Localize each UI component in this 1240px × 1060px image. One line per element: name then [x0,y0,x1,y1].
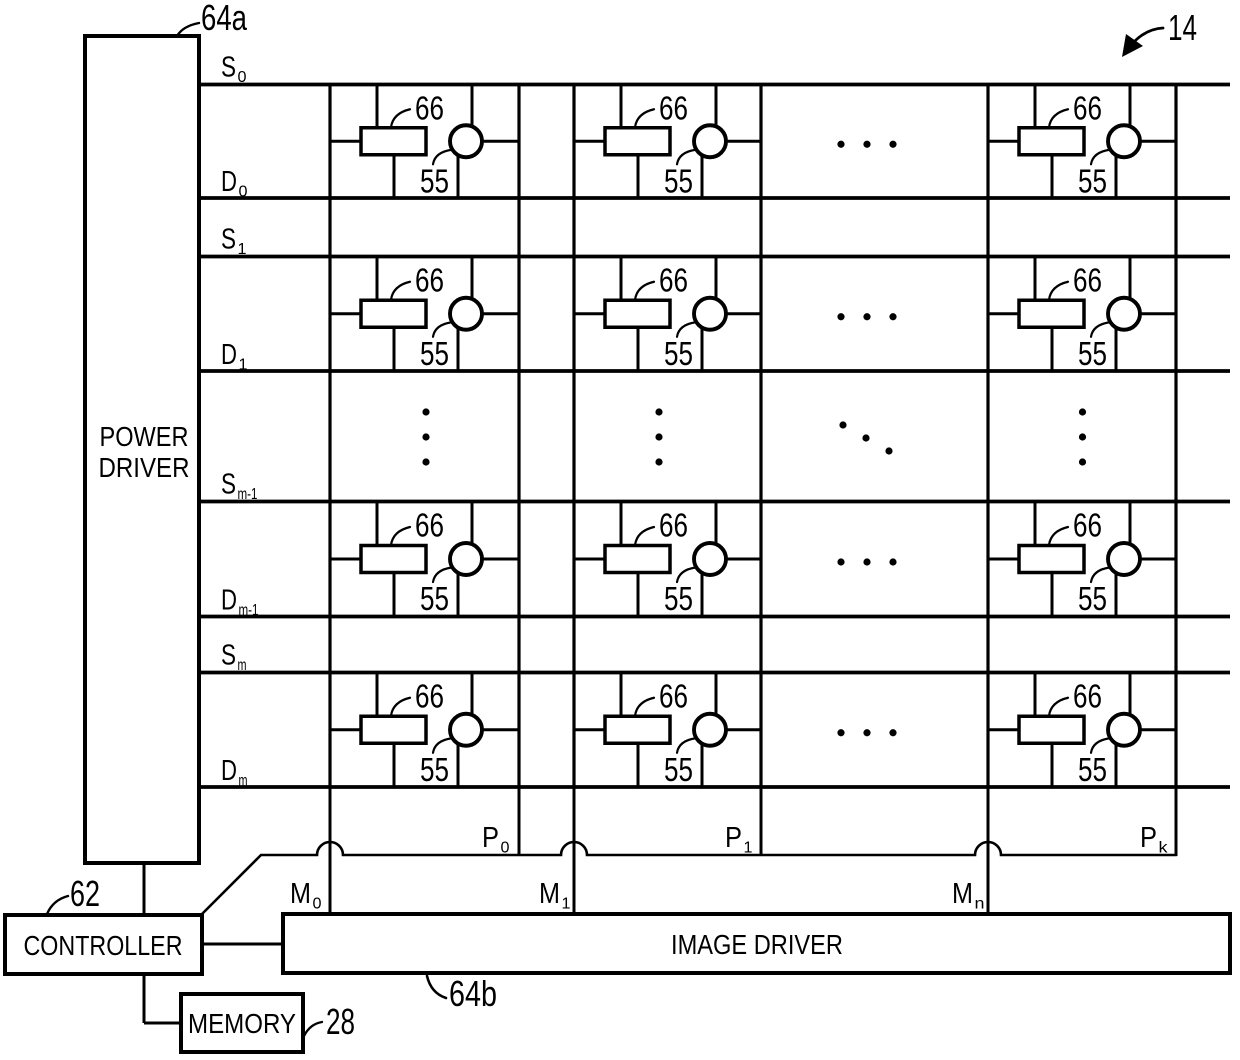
svg-text:POWER: POWER [100,421,189,452]
svg-text:66: 66 [659,678,688,715]
svg-text:0: 0 [501,840,510,857]
svg-text:1: 1 [562,896,571,913]
svg-text:0: 0 [239,184,248,201]
svg-text:m-1: m-1 [238,486,258,503]
svg-text:M: M [290,878,311,910]
svg-text:66: 66 [415,507,444,544]
svg-text:66: 66 [659,262,688,299]
svg-text:1: 1 [238,241,247,258]
svg-text:55: 55 [664,335,693,372]
svg-text:62: 62 [70,873,100,914]
svg-text:S: S [221,52,236,84]
svg-text:55: 55 [664,580,693,617]
svg-text:D: D [221,755,237,787]
svg-text:1: 1 [744,840,753,857]
svg-text:D: D [221,339,237,371]
svg-text:55: 55 [1078,162,1107,199]
svg-text:0: 0 [313,896,322,913]
svg-text:55: 55 [1078,751,1107,788]
svg-text:55: 55 [664,162,693,199]
svg-text:55: 55 [1078,580,1107,617]
svg-text:IMAGE DRIVER: IMAGE DRIVER [671,929,843,960]
svg-text:64a: 64a [201,0,248,38]
svg-text:66: 66 [659,90,688,127]
svg-text:14: 14 [1168,7,1197,48]
svg-text:66: 66 [1073,262,1102,299]
svg-text:D: D [221,166,237,198]
svg-text:D: D [221,585,237,617]
svg-text:m-1: m-1 [239,602,259,619]
svg-text:55: 55 [420,335,449,372]
svg-text:55: 55 [420,580,449,617]
svg-text:66: 66 [415,90,444,127]
svg-text:M: M [539,878,560,910]
svg-text:m: m [239,773,248,790]
svg-text:55: 55 [1078,335,1107,372]
svg-text:0: 0 [238,69,247,86]
svg-text:DRIVER: DRIVER [99,452,190,483]
svg-text:64b: 64b [449,973,497,1014]
svg-text:P: P [1140,822,1157,854]
svg-text:m: m [238,657,247,674]
svg-text:S: S [221,640,236,672]
svg-text:P: P [482,822,499,854]
svg-text:MEMORY: MEMORY [188,1008,296,1039]
svg-text:28: 28 [326,1001,355,1042]
svg-text:66: 66 [1073,678,1102,715]
svg-text:66: 66 [659,507,688,544]
svg-text:66: 66 [1073,90,1102,127]
svg-text:55: 55 [420,162,449,199]
svg-text:1: 1 [239,357,248,374]
svg-text:M: M [952,878,973,910]
svg-text:55: 55 [664,751,693,788]
svg-text:CONTROLLER: CONTROLLER [24,930,183,961]
svg-text:S: S [221,224,236,256]
svg-text:66: 66 [415,678,444,715]
svg-text:P: P [725,822,742,854]
svg-text:S: S [221,469,236,501]
svg-text:66: 66 [1073,507,1102,544]
svg-text:66: 66 [415,262,444,299]
svg-text:55: 55 [420,751,449,788]
svg-text:n: n [975,896,985,913]
svg-text:k: k [1159,840,1169,857]
